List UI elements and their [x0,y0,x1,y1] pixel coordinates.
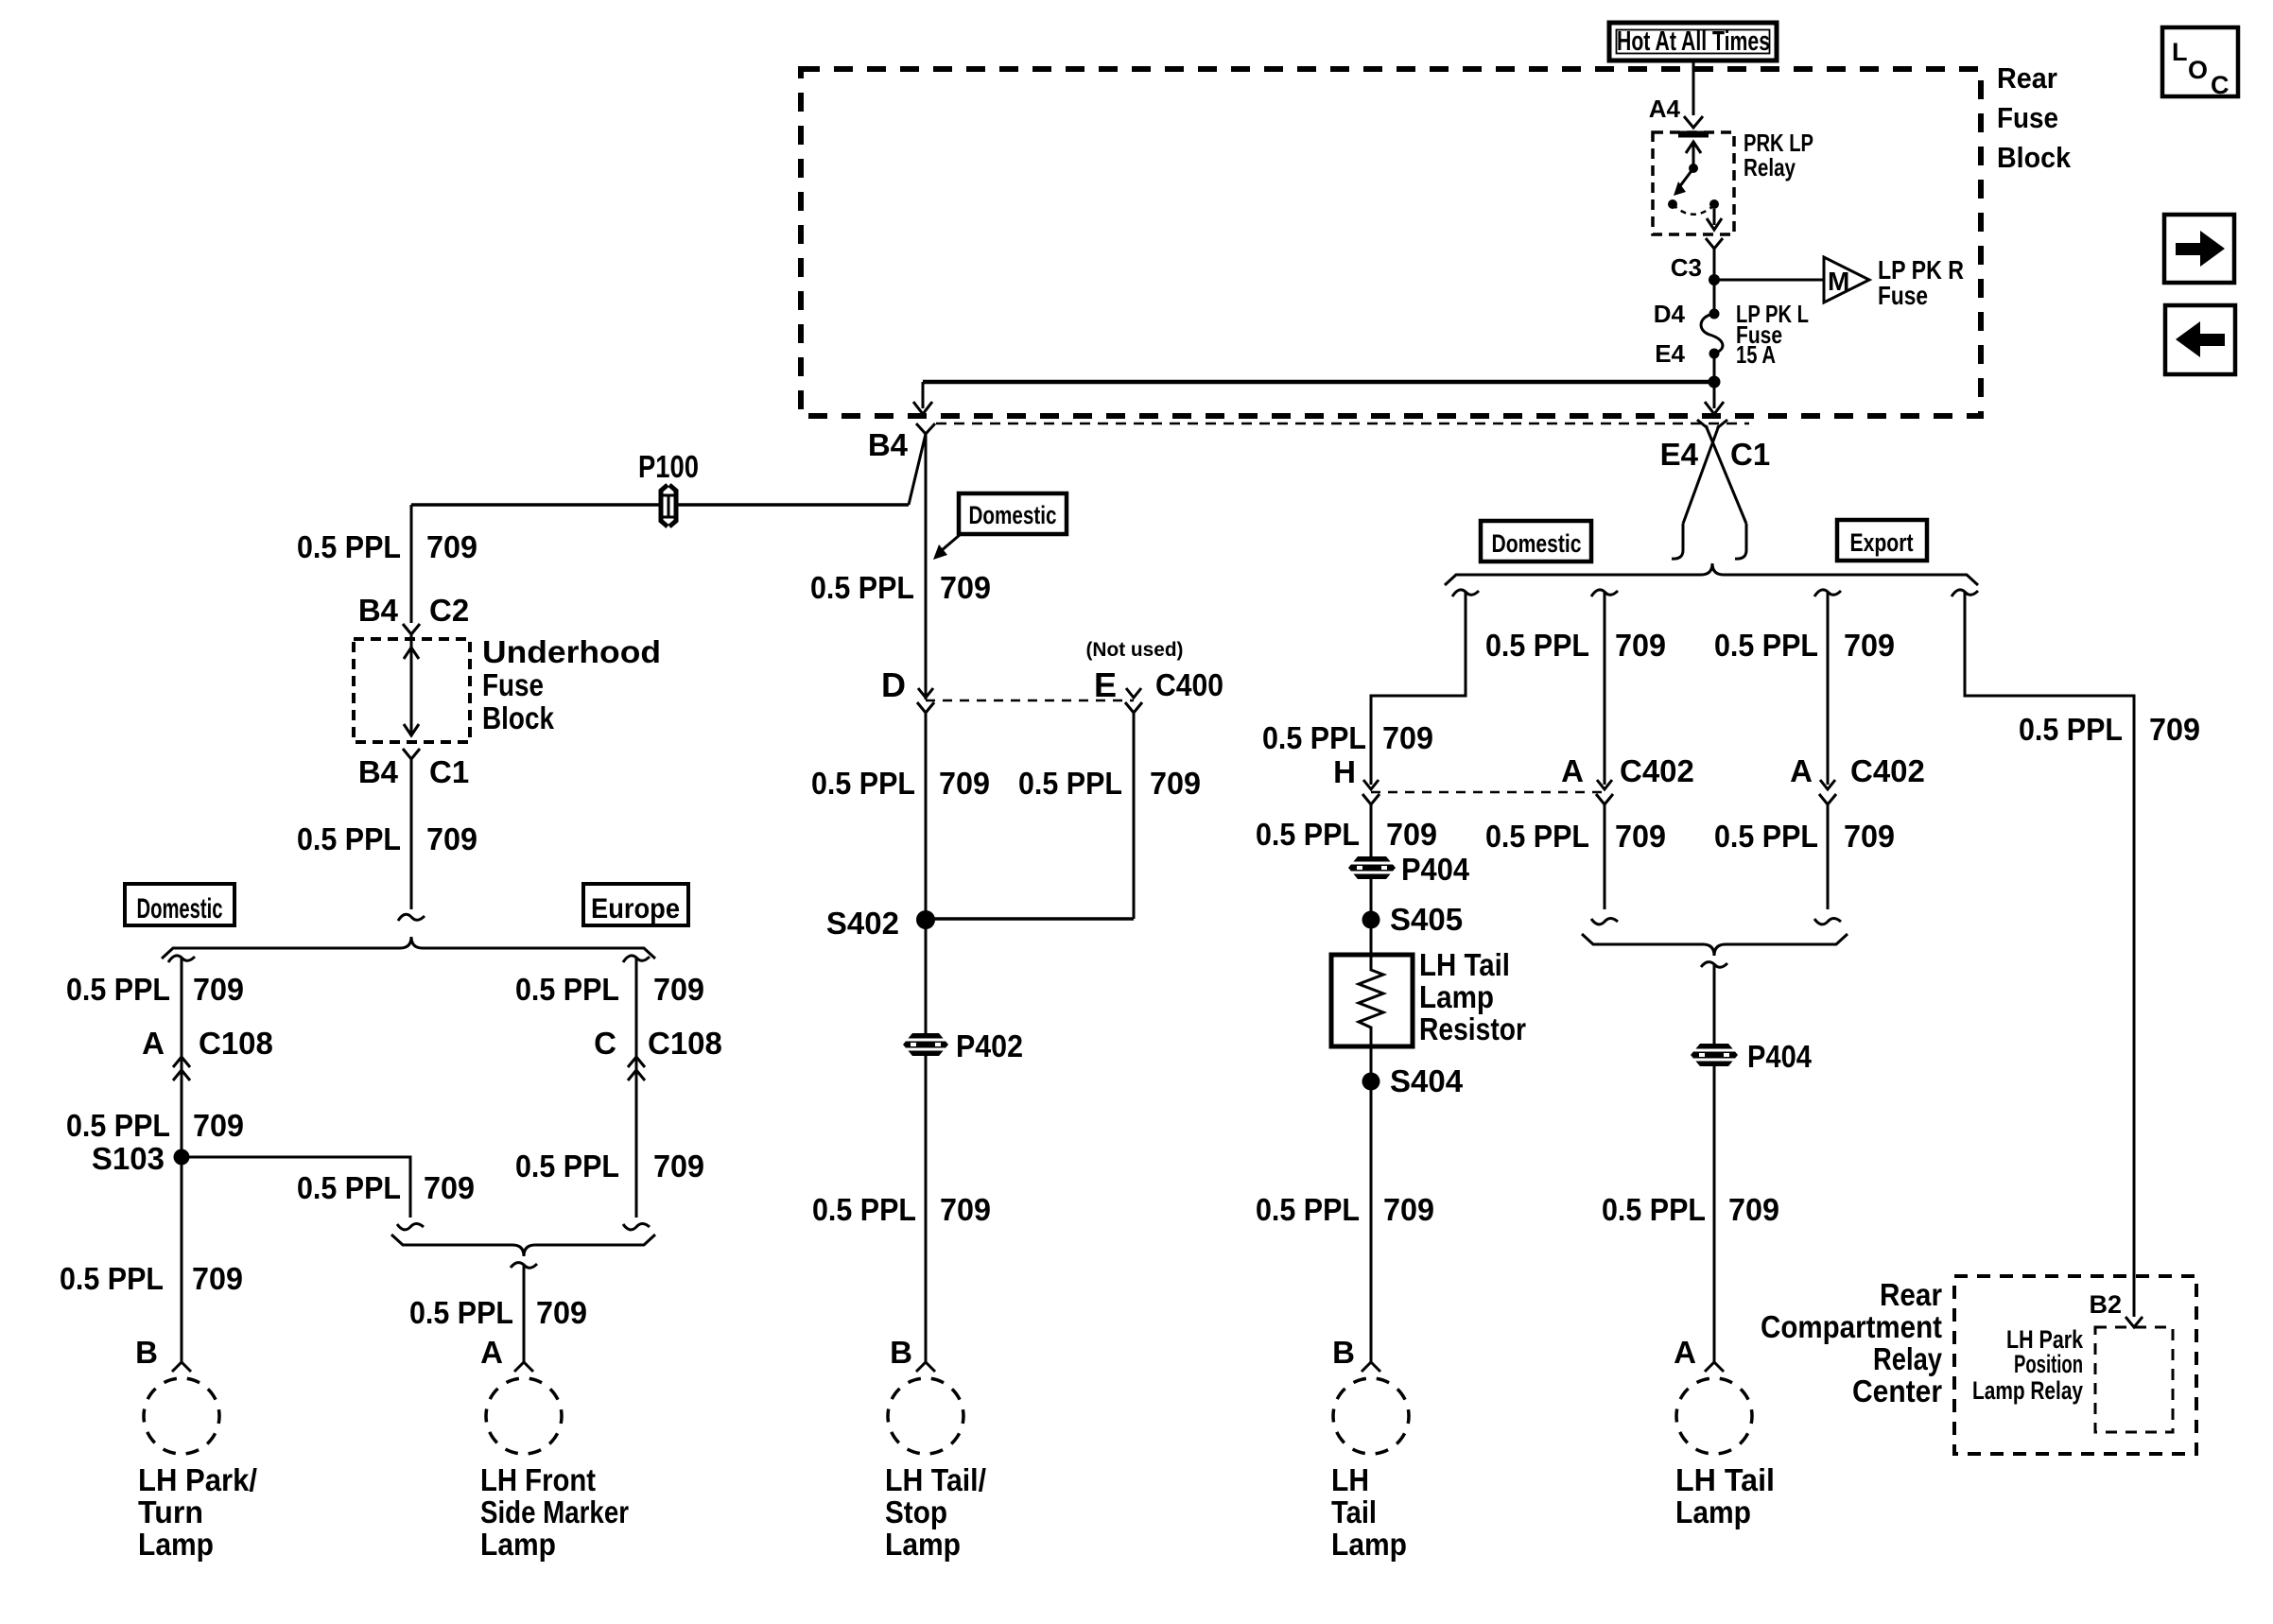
label LP PK R Fuse [1878,255,1964,310]
relay dashed throw arc [1673,204,1714,215]
label 0.5 PPL 709 [1714,819,1895,854]
harness dashed H to A [1371,791,1603,794]
node junction to M [1709,274,1720,285]
wire europe branch [623,956,650,1230]
connector lamp B [916,1362,935,1372]
lamp LH Front Side Marker circle [486,1378,562,1454]
wire arrow down to B4 [913,382,932,414]
option box Export [1837,520,1927,561]
svg-text:0.5 PPL: 0.5 PPL [515,1149,619,1183]
label 0.5 PPL 709 [811,766,990,801]
svg-text:Side Marker: Side Marker [480,1494,629,1529]
connector H [1362,780,1379,804]
svg-text:A: A [480,1335,503,1370]
svg-text:709: 709 [426,529,477,564]
svg-text:0.5 PPL: 0.5 PPL [66,1108,170,1143]
pin label C C108 [594,1026,722,1061]
svg-text:0.5 PPL: 0.5 PPL [66,972,170,1007]
wire to M symbol [1714,279,1824,282]
connector C108 double chevron [173,1057,190,1080]
svg-text:B4: B4 [358,593,399,628]
svg-text:0.5 PPL: 0.5 PPL [1256,817,1360,852]
svg-text:C: C [2211,71,2230,99]
label 0.5 PPL 709 [1256,1192,1434,1227]
svg-text:709: 709 [1728,1192,1779,1227]
svg-text:LH Front: LH Front [480,1462,596,1497]
relay contact bar [1678,131,1709,138]
svg-text:E4: E4 [1660,437,1699,472]
connector E4/C1 crossover [1672,420,1746,559]
splice S103 [92,1141,190,1176]
pin label B4 C1 [358,754,469,789]
svg-text:0.5 PPL: 0.5 PPL [1256,1192,1360,1227]
svg-text:0.5 PPL: 0.5 PPL [60,1261,164,1296]
wire down to splice brace [410,759,413,909]
svg-text:B4: B4 [358,754,399,789]
svg-text:LH Tail: LH Tail [1675,1462,1775,1497]
svg-text:709: 709 [1844,628,1895,663]
label LP PK L Fuse 15 A [1736,300,1809,369]
off-page symbol M [1824,257,1869,302]
svg-text:709: 709 [1150,766,1201,801]
svg-text:Underhood: Underhood [482,634,661,669]
pin label B4 C2 [358,593,469,628]
wire to P404 [1713,964,1716,1045]
label 0.5 PPL 709 [810,570,991,605]
svg-text:L: L [2172,38,2188,66]
svg-text:0.5 PPL: 0.5 PPL [297,1170,401,1205]
component box Rear Fuse Block [801,69,1981,416]
svg-text:Lamp: Lamp [1675,1494,1751,1529]
wire E to S402 [926,917,1134,921]
splice S402 [826,906,935,941]
label LH Park/Turn Lamp [138,1462,257,1562]
splice brace export/domestic [1445,563,1978,585]
legend arrow right box [2164,215,2234,283]
lamp LH Park/Turn circle [144,1378,219,1454]
wire D down through S402 [925,713,928,1034]
wire 1 curl and drop to H [1371,590,1479,785]
svg-text:D: D [881,665,906,704]
wire P100 horizontal [411,503,660,507]
relay output arrow down [1707,209,1722,230]
pin label A C402 [1561,753,1694,788]
svg-text:709: 709 [1386,817,1437,852]
label 0.5 PPL 709 [1018,766,1201,801]
wire diagonal B4 to P100 run [909,434,926,505]
wire to side marker lamp [523,1265,526,1362]
connector lamp A [1705,1362,1724,1372]
svg-text:C108: C108 [648,1026,722,1061]
label LH Tail Lamp Resistor [1419,947,1526,1046]
wire hot-to-A4 [1692,60,1695,115]
svg-text:C108: C108 [199,1026,273,1061]
svg-text:Block: Block [1997,141,2072,174]
svg-text:709: 709 [940,1192,991,1227]
svg-text:0.5 PPL: 0.5 PPL [1602,1192,1706,1227]
svg-text:Center: Center [1852,1373,1942,1408]
option box Domestic [125,884,234,925]
svg-text:Fuse: Fuse [482,667,544,702]
svg-text:Rear: Rear [1880,1277,1942,1312]
wire left branch down [181,958,183,1362]
svg-text:0.5 PPL: 0.5 PPL [515,972,619,1007]
pin label A C108 [142,1026,273,1061]
svg-text:0.5 PPL: 0.5 PPL [297,821,401,856]
splice brace domestic/europe [162,937,655,959]
wire 4 export outer drop [1952,590,2134,1317]
node E4 [1709,349,1720,359]
svg-text:709: 709 [939,766,990,801]
svg-text:709: 709 [1615,819,1666,854]
wire B4 down tail/stop [925,434,928,700]
svg-text:E: E [1094,665,1117,704]
wire curl below brace [1701,962,1727,968]
connector P404 pass-through [1348,856,1396,879]
wire S103 branch to side marker [182,1157,410,1218]
connector C3 [1706,238,1723,249]
svg-text:E4: E4 [1655,339,1685,368]
splice S404 [1362,1063,1464,1098]
svg-text:P100: P100 [638,449,699,484]
svg-text:Domestic: Domestic [969,501,1057,529]
node D4 [1709,309,1720,320]
wire resistor to lamp [1370,1046,1373,1362]
svg-text:709: 709 [1383,1192,1434,1227]
label 0.5 PPL 709 [2019,712,2200,747]
svg-text:Resistor: Resistor [1419,1011,1526,1046]
label 0.5 PPL 709 [1714,628,1895,663]
label 0.5 PPL 709 [66,972,244,1007]
label 0.5 PPL 709 [1256,817,1437,852]
harness dashed D to E [926,700,1134,702]
svg-text:C1: C1 [429,754,469,789]
wire fuse to junction [1713,354,1716,382]
svg-text:0.5 PPL: 0.5 PPL [297,529,401,564]
svg-text:709: 709 [940,570,991,605]
svg-text:A: A [1561,753,1584,788]
svg-text:Block: Block [482,700,555,735]
connector lamp B [1362,1362,1380,1372]
relay U1 PRK LP Relay dashed box [1653,132,1734,234]
svg-text:Fuse: Fuse [1878,281,1928,310]
wire to tail/stop lamp [925,1055,928,1362]
label LH Tail Lamp [1331,1462,1407,1562]
svg-text:Lamp: Lamp [885,1527,961,1562]
label 0.5 PPL 709 [297,529,477,564]
svg-text:Hot At All Times: Hot At All Times [1617,26,1770,57]
svg-text:0.5 PPL: 0.5 PPL [811,766,915,801]
label 0.5 PPL 709 [515,972,704,1007]
svg-text:709: 709 [424,1170,475,1205]
svg-text:0.5 PPL: 0.5 PPL [1485,819,1589,854]
svg-text:0.5 PPL: 0.5 PPL [409,1295,513,1330]
wire end curl [397,1224,424,1230]
connector D [917,688,934,713]
connector B4/C2 [403,624,420,634]
connector lamp A [514,1362,533,1372]
connector B4 [916,423,935,434]
svg-text:(Not used): (Not used) [1086,639,1184,661]
legend arrow left box [2165,305,2235,374]
svg-text:S404: S404 [1390,1063,1464,1098]
wire pass-through arrows inside block [404,634,419,736]
svg-text:709: 709 [2149,712,2200,747]
svg-text:C3: C3 [1671,253,1702,282]
svg-text:Europe: Europe [591,893,680,924]
label 0.5 PPL 709 [66,1108,244,1143]
label Underhood Fuse Block [482,634,661,735]
label LH Tail Lamp [1675,1462,1775,1529]
wire to LH tail lamp [1713,1065,1716,1362]
component box Underhood Fuse Block [354,639,470,742]
lamp LH Tail circle [1333,1378,1409,1454]
wire curl below brace [511,1263,537,1269]
svg-text:C402: C402 [1850,753,1925,788]
svg-text:D4: D4 [1654,300,1686,328]
svg-text:S405: S405 [1390,902,1463,937]
svg-text:LH Park/: LH Park/ [138,1462,257,1497]
node feed junction [1709,376,1721,389]
label PRK LP Relay [1744,129,1813,181]
svg-text:B: B [890,1335,912,1370]
svg-text:LH Tail/: LH Tail/ [885,1462,986,1497]
wire down to underhood block [410,505,413,623]
label 0.5 PPL 709 [297,821,477,856]
svg-text:Lamp: Lamp [1331,1527,1407,1562]
svg-text:A: A [1674,1335,1696,1370]
wire arrow down to E4 [1705,382,1724,414]
wire 2 domestic drop [1591,590,1618,924]
svg-text:0.5 PPL: 0.5 PPL [1485,628,1589,663]
svg-text:0.5 PPL: 0.5 PPL [1714,628,1818,663]
connector P100 pass-through [661,485,676,527]
svg-text:B: B [135,1335,158,1370]
svg-text:Rear: Rear [1997,61,2057,95]
svg-text:709: 709 [1844,819,1895,854]
wire 3 export drop [1814,590,1841,924]
svg-text:C2: C2 [429,593,469,628]
label LH Front Side Marker Lamp [480,1462,629,1562]
svg-text:C1: C1 [1730,437,1770,472]
label 0.5 PPL 709 [60,1261,243,1296]
svg-text:S103: S103 [92,1141,165,1176]
svg-text:P404: P404 [1401,852,1470,887]
svg-text:Lamp: Lamp [1419,979,1494,1014]
svg-text:Tail: Tail [1331,1494,1377,1529]
svg-text:A: A [142,1026,165,1061]
label 0.5 PPL 709 [1485,819,1666,854]
relay contact dot left [1668,199,1677,209]
svg-text:709: 709 [426,821,477,856]
connector P402 pass-through [903,1033,948,1056]
label 0.5 PPL 709 [812,1192,991,1227]
svg-text:Lamp Relay: Lamp Relay [1972,1376,2083,1405]
wire to resistor [1370,878,1373,955]
lamp LH Tail/Stop circle [888,1378,963,1454]
label 0.5 PPL 709 [1485,628,1666,663]
svg-text:0.5 PPL: 0.5 PPL [1714,819,1818,854]
svg-text:0.5 PPL: 0.5 PPL [2019,712,2123,747]
svg-text:Compartment: Compartment [1761,1309,1942,1344]
svg-text:709: 709 [536,1295,587,1330]
svg-text:Relay: Relay [1744,153,1796,181]
svg-text:LH: LH [1331,1462,1369,1497]
svg-text:709: 709 [1382,720,1433,755]
splice S405 [1362,902,1464,937]
relay pivot dot [1689,164,1698,173]
connector B4/C1 [403,749,420,759]
relay plunger arrow up [1686,142,1701,167]
wire feed bus [923,380,1714,385]
connector A4 [1684,116,1703,128]
wire curl top left branch [168,956,195,962]
svg-text:Domestic: Domestic [137,893,223,924]
connector lamp B [172,1362,191,1372]
svg-text:709: 709 [193,1108,244,1143]
label 0.5 PPL 709 [515,1149,704,1183]
label 0.5 PPL 709 [1602,1192,1779,1227]
label 0.5 PPL 709 [297,1170,475,1205]
relay box LH Park Position Lamp Relay [2095,1327,2173,1432]
svg-text:B2: B2 [2089,1290,2122,1319]
connector B2 [2126,1317,2143,1327]
svg-text:15 A: 15 A [1736,340,1776,369]
svg-text:LH Tail: LH Tail [1419,947,1510,982]
wire end curl [398,914,425,921]
label Rear Compartment Relay Center [1761,1277,1943,1408]
svg-text:C402: C402 [1620,753,1694,788]
connector E [1125,688,1142,713]
option box Domestic [1481,521,1591,561]
svg-text:0.5 PPL: 0.5 PPL [812,1192,916,1227]
power label Hot At All Times [1609,23,1777,60]
pin label E C400 [1094,665,1223,704]
svg-text:709: 709 [193,972,244,1007]
svg-text:P402: P402 [956,1028,1023,1063]
connector P404 pass-through [1691,1044,1738,1066]
relay contact dot right [1709,199,1719,209]
legend LOC box [2162,27,2238,99]
svg-text:Lamp: Lamp [138,1527,214,1562]
svg-text:709: 709 [192,1261,243,1296]
svg-text:O: O [2188,56,2208,84]
svg-text:Fuse: Fuse [1997,101,2058,134]
pin label A C402 [1790,753,1925,788]
svg-text:0.5 PPL: 0.5 PPL [1018,766,1122,801]
option box Europe [583,884,688,925]
wire H to P404 [1370,804,1373,856]
splice brace side marker [391,1235,655,1256]
svg-text:Position: Position [2014,1350,2083,1378]
label LH Park Position Lamp Relay [1972,1325,2084,1405]
svg-text:S402: S402 [826,906,899,941]
svg-text:A4: A4 [1649,95,1681,123]
svg-text:B4: B4 [868,427,909,462]
svg-text:Domestic: Domestic [1492,529,1582,558]
lamp LH Tail circle [1676,1378,1752,1454]
svg-text:709: 709 [653,1149,704,1183]
label 0.5 PPL 709 [1262,720,1433,755]
svg-text:0.5 PPL: 0.5 PPL [1262,720,1366,755]
svg-text:Stop: Stop [885,1494,947,1529]
svg-text:A: A [1790,753,1813,788]
splice brace to tail lamp [1582,934,1848,956]
fuse LP PK L 15A squiggle [1701,314,1723,354]
svg-text:Turn: Turn [138,1494,203,1529]
pin label E4 C1 [1660,437,1771,472]
svg-text:P404: P404 [1747,1039,1813,1074]
svg-text:Export: Export [1850,528,1914,557]
label 0.5 PPL 709 [409,1295,587,1330]
svg-text:709: 709 [653,972,704,1007]
relay switch arm arrow [1674,168,1693,196]
harness dashed line [936,423,1749,425]
svg-text:709: 709 [1615,628,1666,663]
label LH Tail/Stop Lamp [885,1462,986,1562]
svg-text:B: B [1332,1335,1355,1370]
resistor LH Tail Lamp Resistor box [1331,955,1413,1046]
connector C108 double chevron [628,1057,645,1080]
svg-text:C400: C400 [1155,667,1223,702]
svg-text:H: H [1333,754,1356,789]
svg-text:C: C [594,1026,616,1061]
wire relay to fuse [1713,249,1716,314]
svg-text:0.5 PPL: 0.5 PPL [810,570,914,605]
svg-text:M: M [1828,267,1849,296]
option box Domestic pointer [933,493,1067,560]
label Rear Fuse Block [1997,61,2072,174]
wire E down [1133,713,1136,919]
component box Rear Compartment Relay Center [1954,1276,2196,1454]
svg-text:Relay: Relay [1873,1341,1943,1376]
svg-text:Lamp: Lamp [480,1527,556,1562]
